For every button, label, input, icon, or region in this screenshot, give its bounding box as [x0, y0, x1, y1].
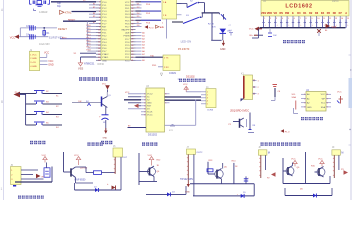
bus LCD pins	[262, 16, 349, 28]
label U4	[306, 90, 310, 92]
wire switch bus	[202, 13, 220, 40]
svg-text:GND: GND	[103, 138, 108, 140]
power VCC sm	[148, 155, 154, 166]
wire J2 down	[166, 19, 168, 39]
connector J6	[113, 146, 128, 190]
power VCC j4	[183, 84, 201, 92]
port keypad	[14, 92, 26, 98]
wire RST net	[63, 19, 96, 21]
svg-text:12MHZ: 12MHZ	[39, 10, 48, 14]
label C-30p	[57, 3, 62, 8]
svg-text:4: 4	[144, 103, 145, 105]
wire ir vert	[42, 167, 53, 183]
svg-text:RESET: RESET	[58, 27, 67, 31]
transistor Q5	[215, 163, 228, 184]
label P2.0	[145, 23, 165, 30]
svg-text:6: 6	[144, 109, 145, 111]
diode D2	[75, 183, 122, 192]
svg-text:XTAL1: XTAL1	[102, 56, 109, 59]
capacitor C7	[229, 25, 234, 36]
svg-text:3: 3	[276, 18, 277, 20]
svg-text:VO: VO	[273, 12, 277, 15]
connector J8	[258, 147, 270, 178]
svg-text:P2.2: P2.2	[125, 54, 130, 56]
svg-text:SCLK: SCLK	[147, 112, 153, 114]
svg-text:GND: GND	[102, 60, 107, 62]
resistor R4	[72, 95, 112, 106]
svg-text:PNP 8550: PNP 8550	[75, 179, 87, 182]
svg-text:1: 1	[1, 187, 3, 191]
svg-text:VCC: VCC	[125, 92, 130, 94]
power GND buzzer	[103, 128, 108, 140]
capacitor C2	[44, 0, 50, 4]
svg-text:VCC: VCC	[318, 159, 323, 161]
svg-text:10uF/16V: 10uF/16V	[39, 43, 50, 46]
svg-text:2 B: 2 B	[163, 15, 167, 17]
capacitor C6	[271, 85, 281, 101]
switch S3	[172, 13, 202, 24]
backlight Q8	[317, 29, 328, 36]
svg-text:4 GND: 4 GND	[30, 66, 37, 68]
svg-text:RXD: RXD	[152, 65, 157, 67]
wire ee left	[292, 94, 299, 114]
resistor R1	[43, 27, 50, 37]
svg-text:1 VCC: 1 VCC	[30, 54, 37, 56]
svg-text:P2.5: P2.5	[125, 45, 130, 47]
label 12MHZ	[39, 10, 48, 14]
svg-text:1 TX: 1 TX	[164, 58, 169, 60]
svg-text:5: 5	[165, 103, 166, 105]
svg-text:12: 12	[329, 18, 331, 20]
svg-text:P3.7: P3.7	[102, 51, 107, 53]
svg-text:11: 11	[323, 18, 325, 20]
svg-text:P0.4: P0.4	[125, 17, 130, 19]
svg-text:P3.5: P3.5	[102, 45, 107, 47]
wire cd load	[232, 161, 239, 184]
svg-text:VCC: VCC	[249, 29, 254, 31]
svg-text:OUT2: OUT2	[197, 152, 204, 154]
bus P0 wires	[136, 2, 162, 27]
wire RST row1	[20, 28, 57, 37]
svg-text:TIP122 NPN: TIP122 NPN	[180, 179, 193, 181]
power VCC dm1	[291, 159, 297, 167]
svg-text:14: 14	[341, 18, 343, 20]
svg-text:P2.7: P2.7	[125, 39, 130, 41]
resistor R3	[268, 29, 277, 37]
capacitor C5	[244, 176, 250, 183]
svg-text:P1.0: P1.0	[285, 132, 290, 134]
svg-text:XTAL: XTAL	[65, 11, 72, 15]
label J3	[169, 72, 181, 81]
connector J3	[152, 55, 180, 76]
svg-text:SDA: SDA	[321, 106, 326, 109]
diode D6	[300, 189, 316, 198]
label rtc title	[179, 76, 205, 82]
svg-text:RESET: RESET	[68, 19, 76, 21]
bus rtc io	[124, 99, 141, 101]
svg-text:2: 2	[144, 97, 145, 99]
svg-text:16PIN: 16PIN	[332, 1, 339, 3]
IC U4 AT24C02	[301, 92, 331, 112]
svg-text:GND: GND	[220, 48, 226, 51]
svg-text:2 RX: 2 RX	[164, 67, 169, 69]
svg-text:VCC: VCC	[183, 84, 188, 86]
svg-text:RST: RST	[147, 106, 152, 108]
wire dm mid vert	[305, 152, 307, 184]
power VCC ee	[337, 92, 343, 104]
label LCD conn	[263, 1, 339, 3]
svg-text:EA/VPP: EA/VPP	[122, 29, 130, 32]
transistor Q6	[267, 163, 300, 180]
diode D5	[237, 192, 247, 198]
svg-text:1: 1	[304, 94, 305, 96]
wire XTAL2 net	[51, 0, 96, 2]
svg-text:8: 8	[327, 94, 328, 96]
battery BT1	[169, 125, 175, 133]
svg-text:AT89C51: AT89C51	[84, 62, 95, 65]
wire dm bottom1	[283, 176, 330, 184]
svg-text:10: 10	[317, 18, 319, 20]
transistor Q7	[311, 166, 348, 178]
svg-text:1: 1	[144, 94, 145, 96]
svg-text:GND: GND	[48, 64, 54, 67]
svg-text:VSS: VSS	[261, 12, 266, 15]
wire sm vert	[138, 153, 140, 185]
svg-text:VCC1: VCC1	[147, 115, 153, 117]
label title relay	[87, 142, 102, 145]
IC U3 DS1302	[141, 88, 170, 132]
svg-text:6: 6	[294, 18, 295, 20]
port P1.0 relay	[281, 129, 291, 133]
svg-text:P2.4: P2.4	[125, 48, 130, 50]
port LCD left	[249, 27, 262, 38]
svg-text:SDA: SDA	[292, 96, 297, 99]
svg-text:7: 7	[144, 112, 145, 114]
svg-text:RST: RST	[102, 26, 107, 28]
svg-text:P1.5: P1.5	[102, 17, 107, 19]
power VCC rd	[74, 155, 81, 165]
svg-text:8: 8	[165, 94, 166, 96]
svg-text:P1.1: P1.1	[102, 5, 107, 7]
bus P2 wires	[136, 31, 146, 62]
wire dm bottom2	[285, 188, 332, 196]
label U3	[146, 86, 158, 136]
power VCC ir	[42, 155, 48, 163]
port ALE	[156, 25, 165, 29]
wire GND pin	[81, 57, 97, 63]
svg-text:P3.3: P3.3	[102, 39, 107, 41]
connector J1 label	[30, 49, 50, 58]
bus P3 wires	[60, 21, 96, 51]
wire RST row2	[19, 36, 48, 38]
svg-text:P1.7: P1.7	[102, 23, 107, 25]
wire cd bus2	[193, 184, 254, 196]
svg-text:4: 4	[282, 18, 283, 20]
svg-text:3: 3	[304, 103, 305, 105]
svg-text:P0.0: P0.0	[125, 5, 130, 7]
transistor Q3	[64, 167, 89, 178]
svg-text:VCC: VCC	[10, 36, 16, 40]
svg-text:M: M	[268, 152, 270, 155]
wire j5 p1	[21, 169, 38, 171]
label title motor	[142, 142, 157, 145]
wire cd bus1	[190, 183, 254, 185]
svg-text:P0.3: P0.3	[125, 14, 130, 16]
IC U1 AT89C51	[96, 0, 136, 62]
wire rtc x1	[128, 96, 141, 98]
transistor Q4	[139, 160, 161, 177]
wire pin19	[74, 53, 97, 55]
svg-text:P0.6: P0.6	[125, 23, 130, 25]
diode D3 red	[107, 183, 116, 190]
svg-text:P3.4: P3.4	[102, 42, 107, 44]
svg-text:COM1: COM1	[169, 72, 177, 75]
wire LCD bl	[250, 35, 263, 37]
label relay	[230, 109, 249, 113]
svg-text:P1.3: P1.3	[102, 11, 107, 13]
svg-text:9: 9	[311, 18, 312, 20]
svg-text:VCC: VCC	[148, 155, 153, 157]
label q5 blue	[180, 179, 193, 181]
svg-text:7: 7	[327, 98, 328, 100]
svg-text:1: 1	[264, 18, 265, 20]
svg-text:VCC: VCC	[102, 84, 107, 86]
label lcd circuit	[283, 40, 305, 43]
svg-text:P0.7: P0.7	[125, 26, 130, 28]
connector J2	[162, 0, 182, 19]
label 8550	[75, 179, 87, 182]
label RESET	[58, 27, 67, 31]
wire J1 pin2	[40, 60, 54, 63]
bus LCD bottom	[260, 27, 346, 29]
wire rtc vcc	[125, 92, 141, 94]
svg-text:5: 5	[144, 106, 145, 108]
bus rtc j4 a	[165, 96, 202, 98]
resistor R11	[76, 167, 116, 183]
svg-text:8: 8	[306, 18, 307, 20]
svg-text:VDD: VDD	[267, 12, 272, 15]
svg-text:Q3 R10: Q3 R10	[80, 168, 88, 170]
label title dcmotor	[261, 142, 301, 145]
svg-text:P1.2: P1.2	[102, 8, 107, 10]
wire rtc x2	[128, 102, 141, 104]
label ir	[18, 196, 44, 199]
transistor Q1	[102, 92, 108, 108]
svg-text:P2.1: P2.1	[125, 57, 130, 59]
power VCC dm2	[318, 159, 324, 167]
connector J4	[201, 87, 216, 112]
svg-text:RW: RW	[285, 12, 290, 15]
keypad switches	[19, 91, 63, 130]
label minsys	[79, 77, 107, 81]
receiver U5	[44, 163, 50, 178]
svg-text:VCC: VCC	[42, 155, 47, 157]
svg-text:M: M	[341, 152, 343, 155]
svg-text:P2.6: P2.6	[125, 42, 130, 44]
resistor R2	[208, 14, 226, 28]
connector J9	[332, 147, 344, 178]
svg-text:15: 15	[347, 18, 349, 20]
svg-text:13: 13	[335, 18, 337, 20]
wire rtc sclk	[128, 108, 141, 110]
diode D4	[146, 186, 186, 196]
port VCC reset	[10, 35, 19, 40]
port j5	[21, 174, 41, 178]
svg-text:VCC: VCC	[74, 155, 79, 157]
connector J7	[187, 147, 204, 196]
switch S2	[177, 1, 205, 13]
svg-text:P3.0: P3.0	[102, 30, 107, 32]
label eeprom	[301, 117, 323, 120]
svg-text:PSEN: PSEN	[124, 36, 130, 38]
svg-text:I/O: I/O	[147, 109, 150, 111]
svg-text:DIP40: DIP40	[98, 64, 105, 66]
svg-text:P1.6: P1.6	[102, 20, 107, 22]
svg-text:2: 2	[270, 18, 271, 20]
svg-text:XTAL2: XTAL2	[102, 53, 109, 56]
svg-text:5: 5	[288, 18, 289, 20]
label keypad	[30, 141, 45, 144]
relay K1	[241, 74, 260, 102]
LED D1	[220, 29, 232, 41]
svg-text:P2.3: P2.3	[125, 51, 130, 53]
port LCD right	[326, 24, 337, 29]
wire J1 pin3	[40, 64, 54, 67]
wire rtc j4 c	[165, 99, 196, 125]
svg-text:P3.1: P3.1	[102, 33, 107, 35]
wire rtc bottom	[128, 126, 147, 128]
connector J1	[29, 51, 39, 70]
svg-text:RS: RS	[279, 12, 283, 15]
svg-text:JDQ/SRD-5VDC: JDQ/SRD-5VDC	[230, 109, 249, 113]
svg-text:8: 8	[144, 115, 145, 117]
port XTAL	[60, 10, 73, 14]
power GND led	[220, 40, 226, 50]
svg-text:3: 3	[144, 100, 145, 102]
svg-text:VCC: VCC	[291, 159, 296, 161]
svg-text:VSS: VSS	[78, 67, 83, 71]
connector J5	[11, 165, 22, 185]
wire rd vert	[63, 152, 65, 172]
wire serial net	[136, 55, 164, 57]
svg-text:P2.0: P2.0	[125, 60, 130, 62]
svg-text:P3.2: P3.2	[102, 36, 107, 38]
svg-text:4: 4	[304, 107, 305, 109]
svg-text:1 A: 1 A	[163, 1, 167, 4]
svg-text:VCC: VCC	[321, 94, 326, 96]
wire j5 p3	[21, 178, 44, 180]
wire XTAL1 net	[72, 11, 97, 13]
svg-text:DS1302: DS1302	[148, 134, 158, 137]
svg-text:DS1302: DS1302	[186, 76, 195, 79]
svg-text:LED-ON: LED-ON	[181, 40, 192, 44]
label buzzer	[101, 141, 112, 144]
resistor R13	[207, 169, 215, 174]
svg-text:CON5: CON5	[207, 110, 214, 112]
svg-text:P1.0: P1.0	[102, 2, 107, 4]
label 10uF	[39, 43, 50, 46]
capacitor C1	[30, 0, 35, 4]
capacitor C3	[26, 25, 35, 30]
wire sm bottom	[139, 177, 157, 182]
svg-text:5: 5	[327, 107, 328, 109]
svg-text:TXD: TXD	[150, 55, 155, 57]
wire led gnd	[211, 39, 221, 41]
wire J1 pin1	[40, 56, 47, 58]
svg-text:A: A	[345, 12, 347, 15]
capacitor C4	[26, 34, 35, 39]
svg-text:3 +5V: 3 +5V	[30, 62, 36, 64]
svg-text:P0.5: P0.5	[125, 20, 130, 22]
connector LCD1602	[261, 1, 349, 17]
wires P1 rows	[89, 4, 96, 24]
wire dm1 vert	[282, 158, 284, 184]
power GND j7	[185, 182, 190, 194]
power VCC buzzer	[102, 84, 110, 93]
wire ir bottom	[13, 182, 52, 187]
buzzer BZ1	[99, 107, 108, 130]
svg-text:R2 1K: R2 1K	[208, 24, 215, 26]
svg-text:GND: GND	[307, 107, 312, 109]
svg-text:7: 7	[300, 18, 301, 20]
svg-text:VCC2: VCC2	[147, 94, 153, 96]
svg-text:ALE: ALE	[125, 32, 130, 35]
label U1 value	[84, 62, 105, 65]
svg-text:VSS: VSS	[332, 26, 337, 29]
svg-text:VCC: VCC	[337, 92, 342, 94]
svg-text:LCD1602: LCD1602	[285, 4, 312, 10]
svg-text:P2.0: P2.0	[149, 27, 154, 29]
label P3 int	[178, 48, 190, 51]
svg-text:10K: 10K	[273, 35, 277, 37]
svg-text:VCC: VCC	[125, 2, 130, 4]
svg-text:2 GND: 2 GND	[30, 58, 37, 60]
svg-text:P1.4: P1.4	[102, 14, 107, 16]
svg-text:P3.2/INT0: P3.2/INT0	[178, 48, 190, 51]
svg-text:P3.6: P3.6	[102, 48, 107, 50]
svg-text:6: 6	[327, 103, 328, 105]
svg-text:P0.2: P0.2	[125, 11, 130, 13]
svg-text:GND: GND	[185, 191, 190, 193]
transistor Q2	[229, 113, 257, 133]
svg-text:B: B	[1, 100, 3, 104]
svg-text:VCC: VCC	[48, 60, 53, 63]
bus rtc j4 b	[165, 99, 202, 101]
svg-text:2: 2	[304, 98, 305, 100]
label RESET-SW	[49, 36, 64, 39]
wire rtc rst	[134, 104, 141, 108]
label LED-ON	[181, 40, 192, 44]
wire cd vert	[208, 160, 213, 174]
crystal Y1	[34, 1, 44, 11]
svg-text:P0.1: P0.1	[125, 8, 130, 10]
power VSS U1	[78, 60, 83, 71]
svg-text:GND: GND	[147, 103, 152, 105]
svg-text:OUT: OUT	[123, 157, 128, 159]
